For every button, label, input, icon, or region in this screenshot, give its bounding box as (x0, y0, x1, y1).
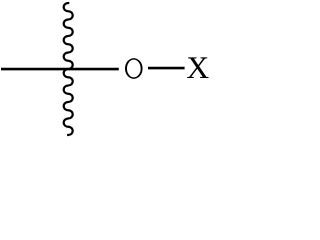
wavy bond (attachment-point squiggle) (64, 3, 73, 135)
atom label O (125, 58, 143, 79)
wire: main horizontal bond line (1, 68, 119, 71)
atom label X (187, 57, 208, 78)
wire: bond O to X (148, 67, 185, 70)
